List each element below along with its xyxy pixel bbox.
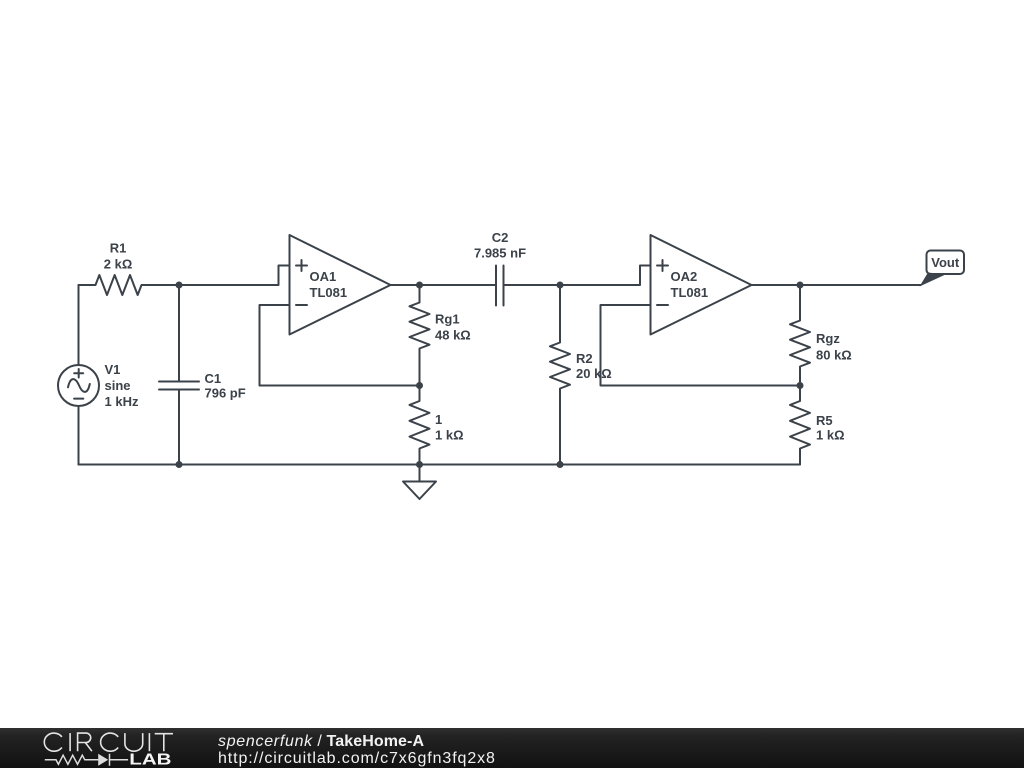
svg-text:Rg1: Rg1 xyxy=(435,312,460,327)
flag Vout box xyxy=(927,251,965,275)
svg-text:2 kΩ: 2 kΩ xyxy=(104,257,133,272)
logo diode triangle xyxy=(98,754,108,766)
op-amp U2 OA2 triangle xyxy=(651,235,752,335)
footer url xyxy=(218,751,496,767)
op-amp OA2 plus symbol xyxy=(657,260,668,271)
resistor R5 xyxy=(790,386,810,465)
op-amp U1 OA1 triangle xyxy=(290,235,391,335)
voltage source V1 minus symbol xyxy=(74,398,83,400)
svg-text:1 kHz: 1 kHz xyxy=(105,394,139,409)
wire: node A to OA1 plus input (with jog) xyxy=(179,266,290,286)
svg-text:sine: sine xyxy=(105,378,131,393)
capacitor C1 bottom lead xyxy=(178,390,180,465)
voltage source V1 sine wave xyxy=(68,379,90,392)
svg-text:OA1: OA1 xyxy=(310,269,337,284)
node: ground junction xyxy=(416,461,423,468)
resistor R2 xyxy=(550,285,570,465)
svg-text:R1: R1 xyxy=(110,241,127,256)
svg-text:1: 1 xyxy=(435,412,442,427)
svg-text:1 kΩ: 1 kΩ xyxy=(816,428,845,443)
wire: OA1 feedback (minus input to Rg1/R-1k junction) xyxy=(260,305,420,386)
voltage source V1 plus symbol xyxy=(74,369,83,378)
resistor R1 xyxy=(79,275,180,295)
svg-text:TL081: TL081 xyxy=(310,285,348,300)
ground symbol xyxy=(403,465,436,500)
wire: C2 to OA2 plus input (with jog) xyxy=(504,266,651,286)
wire: left branch V1 top xyxy=(78,285,80,365)
wire: OA2 feedback (minus input to Rgz/R5 junction) xyxy=(601,305,801,386)
svg-text:Vout: Vout xyxy=(931,255,960,270)
svg-text:TL081: TL081 xyxy=(671,285,709,300)
node: OA2 output junction xyxy=(797,282,804,289)
node: OA1 output junction xyxy=(416,282,423,289)
wire: OA2 output to Vout xyxy=(752,284,921,286)
svg-text:OA2: OA2 xyxy=(671,269,698,284)
svg-text:LAB: LAB xyxy=(129,752,171,768)
footer credit text xyxy=(218,734,424,750)
svg-text:Rgz: Rgz xyxy=(816,331,840,346)
svg-text:48 kΩ: 48 kΩ xyxy=(435,328,471,343)
node: C1 bottom junction xyxy=(176,461,183,468)
svg-text:V1: V1 xyxy=(105,362,121,377)
wire: OA1 output to C2 xyxy=(391,284,497,286)
op-amp OA1 minus symbol xyxy=(296,304,307,306)
voltage source V1 circle xyxy=(58,365,99,406)
footer bar xyxy=(0,728,1024,768)
node: R2 bottom junction xyxy=(557,461,564,468)
resistor Rg1 xyxy=(410,285,430,386)
wire: left branch V1 bottom xyxy=(78,406,80,465)
capacitor C1 plates xyxy=(159,382,199,390)
node: C2/R2 junction xyxy=(557,282,564,289)
resistor 1 (1 kOhm) xyxy=(410,386,430,465)
svg-text:80 kΩ: 80 kΩ xyxy=(816,348,852,363)
node: Rgz/R5 feedback junction xyxy=(797,382,804,389)
capacitor C1 top lead xyxy=(178,285,180,382)
node: Rg1 feedback junction xyxy=(416,382,423,389)
resistor Rgz xyxy=(790,285,810,386)
svg-text:20 kΩ: 20 kΩ xyxy=(576,366,612,381)
logo resistor-diode glyph xyxy=(45,754,128,766)
logo CIRCUIT text xyxy=(44,733,173,751)
svg-text:C2: C2 xyxy=(492,230,509,245)
flag Vout pointer xyxy=(920,273,946,287)
capacitor C2 plates xyxy=(496,266,504,306)
op-amp OA1 plus symbol xyxy=(296,260,307,271)
node: R1/C1/OA1 junction xyxy=(176,282,183,289)
svg-text:1 kΩ: 1 kΩ xyxy=(435,428,464,443)
wire: bottom ground rail xyxy=(79,464,801,466)
svg-text:7.985 nF: 7.985 nF xyxy=(474,246,526,261)
svg-text:C1: C1 xyxy=(205,371,222,386)
svg-text:796 pF: 796 pF xyxy=(205,386,246,401)
svg-text:R2: R2 xyxy=(576,351,593,366)
op-amp OA2 minus symbol xyxy=(657,304,668,306)
svg-text:R5: R5 xyxy=(816,413,833,428)
